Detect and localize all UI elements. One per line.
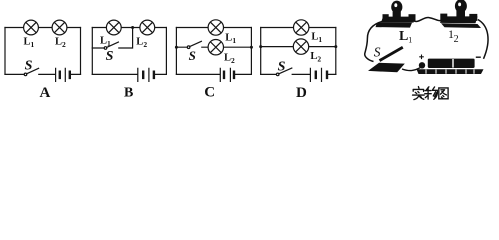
svg-text:2: 2 [454, 34, 459, 45]
wire D left edge [260, 28, 262, 75]
svg-text:D: D [296, 85, 307, 101]
battery tray (physical) [417, 69, 484, 74]
svg-text:L2: L2 [136, 37, 147, 50]
switch S (circuit C, in series with L2) [187, 41, 201, 48]
lamp L1 (circuit D top branch) [294, 20, 309, 35]
svg-text:L2: L2 [310, 51, 321, 64]
battery left terminal (physical) [419, 62, 425, 68]
node junction (circuit B top) [131, 26, 134, 29]
wire from lamp L1 base down to switch (physical) [365, 22, 382, 62]
svg-text:L1: L1 [24, 36, 35, 49]
wire A right edge [80, 28, 82, 75]
wire lamp L2 base to battery (physical right side) [478, 20, 488, 59]
battery (circuit C) [220, 68, 234, 81]
svg-text:1: 1 [408, 35, 412, 44]
switch S (circuit B, parallel with L1) [104, 42, 118, 49]
battery (circuit B) [138, 68, 154, 81]
wire C middle branch [176, 46, 251, 48]
wire switch to battery (physical) [402, 68, 420, 71]
svg-text:L1: L1 [100, 35, 111, 48]
svg-text:L1: L1 [225, 32, 236, 45]
wire C top [176, 27, 251, 29]
wire A bottom segments [5, 73, 81, 75]
wire B right edge [165, 28, 167, 75]
lamp L1 holder base (physical) [381, 17, 416, 23]
wire B top [92, 27, 166, 29]
wire D top [261, 27, 336, 29]
svg-text:C: C [204, 84, 215, 100]
svg-text:S: S [25, 59, 33, 74]
svg-text:S: S [278, 59, 286, 74]
svg-text:L2: L2 [55, 36, 66, 49]
wire B bottom segments [92, 73, 166, 75]
lamp L1 (circuit B) [106, 20, 121, 35]
wire C bottom segments [176, 73, 251, 75]
wire D right edge [335, 28, 337, 75]
circuit A frame wires [5, 28, 81, 75]
svg-text:L1: L1 [311, 32, 322, 45]
switch knife lever (physical) [380, 47, 403, 60]
switch S (circuit D main line) [276, 68, 291, 76]
switch S (circuit A) [24, 68, 38, 75]
lamp L2 (circuit D middle branch) [293, 39, 308, 54]
node junction (circuit C branch left) [175, 46, 178, 49]
svg-text:B: B [124, 86, 133, 101]
lamp L1 bulb (physical) [391, 1, 402, 14]
battery (circuit D) [310, 68, 327, 81]
node junction (circuit C branch right) [250, 46, 253, 49]
lamp L1 (circuit A) [24, 20, 39, 35]
svg-text:S: S [374, 44, 381, 59]
wire A top [5, 27, 81, 29]
wire B parallel branch [92, 28, 132, 49]
lamp L2 bulb (physical) [455, 0, 467, 13]
circuit D frame wires [261, 28, 336, 75]
caption: shi wu tu (hand-drawn CJK strokes) [413, 87, 449, 100]
svg-text:S: S [106, 49, 114, 64]
battery body (physical) [428, 59, 475, 68]
wire B left edge [91, 28, 93, 75]
circuit C frame wires [176, 28, 251, 75]
svg-text:A: A [40, 85, 51, 101]
lamp L2 (circuit A) [52, 20, 67, 35]
node junction (circuit D branch left) [259, 45, 262, 48]
lamp L2 (circuit C middle branch) [208, 40, 223, 55]
wire D bottom segments [261, 73, 336, 75]
svg-text:S: S [189, 48, 196, 63]
glyph: wu [425, 87, 438, 100]
wire D middle branch [261, 46, 336, 48]
glyph: shi [413, 87, 425, 100]
lamp L1 (circuit C top branch) [208, 20, 223, 35]
svg-text:L: L [399, 29, 408, 44]
battery (circuit A) [56, 68, 70, 81]
minus terminal mark (physical battery) [476, 56, 481, 58]
wire between lamp bases (physical) [414, 18, 444, 22]
plus terminal mark (physical battery) [419, 55, 424, 60]
circuit B frame wires [92, 28, 166, 75]
svg-text:L2: L2 [224, 52, 235, 65]
wire A left edge [4, 28, 6, 75]
lamp L2 holder base (physical) [440, 16, 478, 23]
glyph: tu [439, 88, 448, 99]
switch base (physical) [368, 63, 405, 73]
wire C right edge [250, 28, 252, 75]
node junction (circuit D branch right) [334, 45, 337, 48]
lamp L2 (circuit B) [140, 20, 155, 35]
wire C left edge [175, 28, 177, 75]
